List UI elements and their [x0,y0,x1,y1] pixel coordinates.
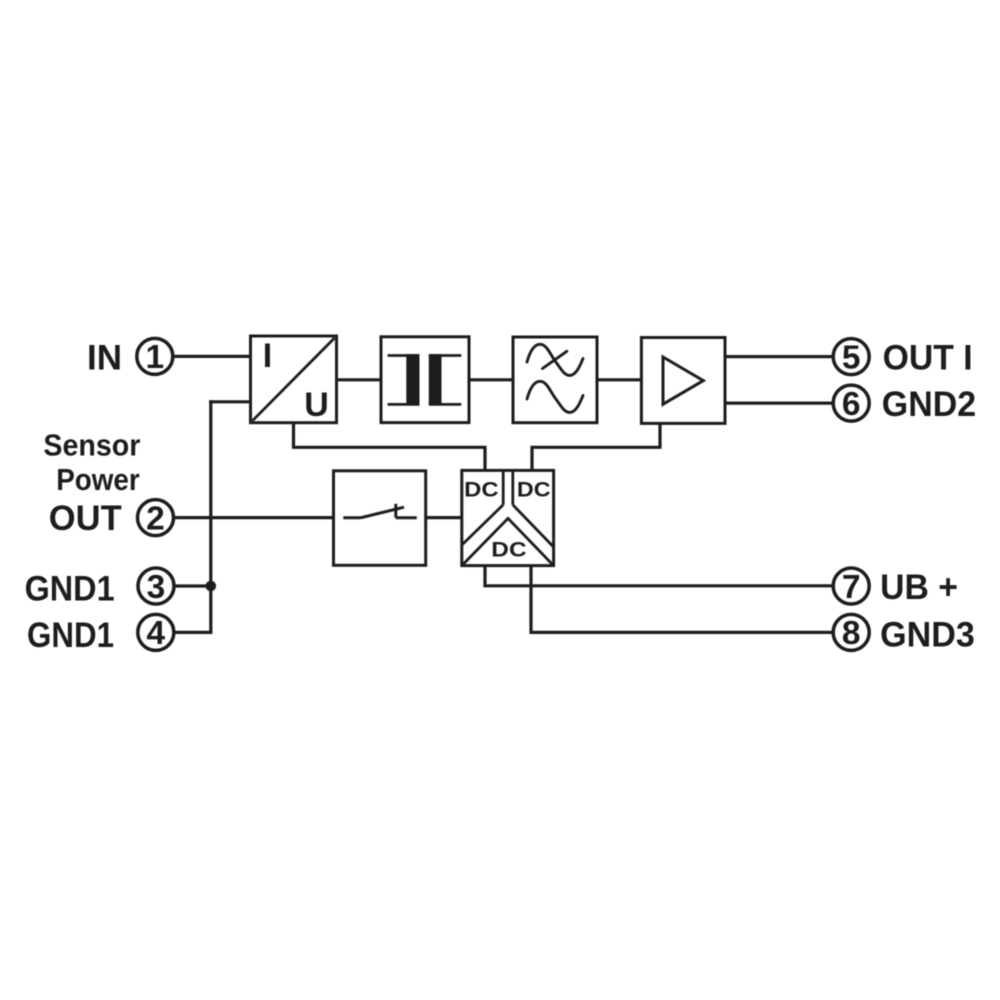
terminal 5 circle [833,339,869,377]
wire amplifier to terminal 6 [725,402,845,405]
svg-text:Power: Power [56,462,140,497]
wire I/U to transformer [337,378,382,381]
svg-text:U: U [304,386,329,424]
wire DC/DC to terminal 8 [531,566,845,633]
DC/DC converter block [462,470,554,565]
svg-text:DC: DC [517,478,551,502]
svg-text:1: 1 [145,339,164,376]
svg-text:UB +: UB + [880,568,958,607]
svg-text:GND1: GND1 [27,616,114,655]
terminal 1 circle [137,338,173,376]
label Sensor Power [43,428,140,497]
svg-text:Sensor: Sensor [43,428,140,463]
wire terminal 1 to I/U converter [160,355,251,358]
wire filter to amplifier [597,378,641,381]
svg-text:GND3: GND3 [880,616,975,655]
terminal 6 circle [833,385,869,423]
svg-text:7: 7 [842,569,861,606]
svg-text:3: 3 [147,569,166,606]
wire switch to DC/DC [426,516,462,519]
wire terminal 2 to switch [160,516,334,519]
wire amplifier to DC/DC right input [532,423,660,470]
terminal 2 circle [138,500,174,538]
svg-text:8: 8 [842,615,861,652]
svg-text:DC: DC [491,538,526,562]
terminal 8 circle [833,614,869,652]
svg-text:IN: IN [87,339,122,378]
amplifier block A1 [641,338,725,424]
terminal 4 circle [138,614,174,652]
svg-text:DC: DC [464,478,499,502]
converter block U1 (I/U) [251,336,337,424]
transformer block T1 [381,337,469,423]
wire amplifier to terminal 5 [725,355,845,358]
wire I/U to sensor bus [209,400,250,403]
switch block S1 [334,471,426,566]
terminal 7 circle [833,568,869,606]
svg-text:GND1: GND1 [25,569,115,608]
svg-text:5: 5 [842,339,861,376]
wire terminal 3 to bus [160,584,211,587]
wire transformer to filter [469,378,513,381]
terminal 3 circle [138,568,174,606]
wire DC/DC to terminal 7 [485,566,845,586]
svg-text:OUT I: OUT I [883,338,973,377]
junction dot [206,581,217,592]
svg-text:4: 4 [146,615,165,652]
svg-text:GND2: GND2 [882,385,976,424]
wire I/U to DC/DC left input [294,423,486,471]
svg-text:2: 2 [146,500,165,537]
filter block (band pass) [513,337,597,423]
svg-text:6: 6 [842,386,861,423]
wire terminal 4 to bus [160,631,212,634]
sensor bus vertical wire [209,400,212,632]
svg-text:OUT: OUT [49,499,122,538]
svg-text:I: I [263,337,272,375]
